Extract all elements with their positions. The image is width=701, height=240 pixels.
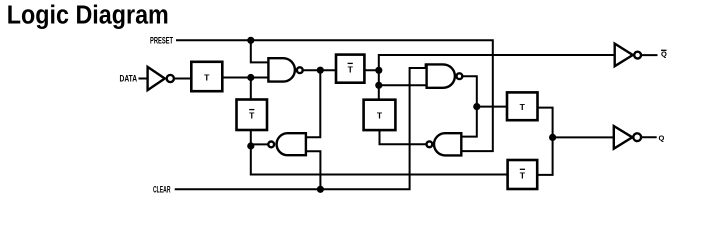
wire PRESET tap to U1 top input	[251, 40, 269, 62]
wire T5 output to node C	[538, 108, 553, 138]
wire U3 output bubble to node	[251, 143, 268, 145]
wire T2 bottom / U3 output net to T6	[251, 130, 508, 175]
overbar T2	[249, 109, 254, 111]
svg-text:T: T	[520, 102, 526, 112]
overbar QB	[661, 49, 667, 51]
inverter U6 (QB)	[615, 44, 633, 67]
wire U7 output to Q label	[641, 136, 656, 138]
wire data tap down to T2	[250, 78, 252, 100]
wire U6 output to QB label	[641, 54, 657, 56]
nand gate U1	[268, 58, 295, 81]
wire node B to T5 input	[477, 106, 507, 108]
svg-text:T: T	[348, 64, 354, 74]
delay box T3 (T-bar)	[336, 55, 364, 83]
wire node A to U4 bottom input	[379, 84, 427, 86]
junction node B	[473, 103, 480, 110]
wire U1 output down to U3 top input	[306, 70, 320, 137]
svg-text:T: T	[520, 170, 526, 180]
svg-text:Logic Diagram: Logic Diagram	[7, 2, 169, 30]
wire node C to inverter U7	[553, 136, 614, 138]
wire U4 output down to U5 top input	[461, 76, 477, 136]
wire CLEAR net	[176, 64, 426, 189]
nand gate U5 (mirrored)	[434, 133, 461, 155]
delay box T1	[191, 62, 222, 91]
svg-text:Q: Q	[659, 133, 665, 142]
wire node A riser and QB line to inverter U6	[379, 55, 615, 100]
nand gate U4	[427, 64, 455, 87]
svg-text:T: T	[377, 111, 383, 121]
wire T4 bottom to U5 output bubble	[380, 130, 427, 144]
junction U3 output	[247, 142, 254, 149]
junction node A lower	[375, 82, 382, 89]
wire inverter U2 output to T1	[174, 78, 191, 80]
svg-text:PRESET: PRESET	[150, 36, 173, 46]
junction node A upper	[375, 67, 382, 74]
junction node C	[549, 134, 556, 141]
wire U3 bottom input down to CLEAR	[306, 151, 321, 189]
inverter U2 (DATA)	[148, 67, 165, 90]
delay box T2 (T-bar)	[237, 100, 268, 131]
wire PRESET net	[177, 40, 493, 151]
nand gate U3 (mirrored)	[277, 133, 306, 155]
wire U1 output to T3	[303, 69, 336, 71]
svg-text:T: T	[249, 111, 255, 121]
overbar T6	[520, 168, 525, 170]
svg-text:CLEAR: CLEAR	[153, 184, 171, 194]
wire T3 output to node A	[364, 69, 378, 71]
svg-text:T: T	[204, 73, 210, 83]
wire T6 output to node C	[537, 137, 552, 175]
wire T1 output to U1 bottom input	[222, 77, 268, 79]
delay box T5	[507, 92, 538, 120]
delay box T6 (T-bar)	[508, 160, 538, 189]
overbar T3	[348, 62, 353, 64]
junction clear/U3	[317, 186, 324, 193]
junction data/T2	[247, 74, 254, 81]
svg-text:DATA: DATA	[120, 73, 138, 83]
wire DATA stub	[140, 78, 148, 80]
junction U1 output	[317, 67, 324, 74]
delay box T4	[364, 100, 396, 130]
inverter U7 (Q)	[614, 126, 633, 149]
junction preset/U1	[247, 37, 254, 44]
